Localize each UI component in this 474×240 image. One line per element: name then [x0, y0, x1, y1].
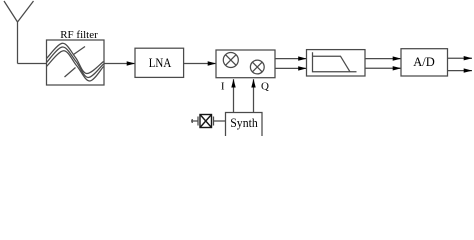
LNA box — [135, 48, 184, 77]
wire LPF to AD bottom — [365, 67, 401, 69]
AD output bottom — [448, 70, 473, 72]
crystal right plate — [213, 117, 215, 126]
svg-text:LNA: LNA — [149, 56, 172, 70]
filter curve 2 — [47, 47, 104, 78]
AD output top — [448, 57, 473, 59]
svg-text:Q: Q — [261, 81, 269, 93]
filter curve 1 — [47, 43, 104, 73]
A/D box — [401, 49, 448, 76]
wire antenna to RF filter — [18, 63, 47, 65]
LPF box — [307, 50, 366, 76]
antenna — [4, 1, 34, 64]
filter slash lower — [65, 68, 76, 78]
crystal lead left — [191, 120, 198, 122]
Synth box — [226, 113, 263, 138]
svg-text:A/D: A/D — [413, 55, 435, 69]
crystal lead right — [214, 120, 226, 122]
filter curve 3 — [47, 51, 104, 81]
wire synth to mixer Q — [253, 79, 255, 112]
wire synth to mixer I — [233, 79, 235, 112]
crystal left terminal tick — [191, 119, 193, 123]
svg-text:Synth: Synth — [230, 116, 258, 130]
wire mixer I out to LPF — [275, 58, 307, 60]
LPF response curve — [313, 56, 351, 72]
mixer Q circle — [250, 60, 264, 74]
wire LNA to mixer — [184, 63, 216, 65]
wire filter to LNA — [104, 63, 135, 65]
wire mixer Q out to LPF — [275, 67, 307, 69]
svg-text:I: I — [221, 81, 225, 93]
mixer I circle — [223, 53, 238, 68]
mixer box — [216, 50, 275, 78]
filter slash upper — [74, 47, 86, 55]
svg-text:RF filter: RF filter — [60, 29, 98, 41]
RF filter box — [47, 40, 105, 85]
crystal body — [200, 115, 212, 128]
crystal left plate — [197, 117, 199, 126]
wire LPF to AD top — [365, 58, 401, 60]
LPF response axes — [313, 52, 357, 72]
